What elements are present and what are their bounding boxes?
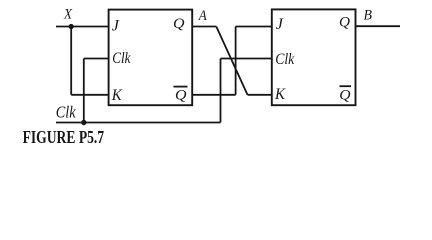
svg-text:Q: Q <box>175 87 187 103</box>
wire Q1 output node A <box>192 26 216 28</box>
wire X branch to K1 <box>71 94 108 96</box>
wire Clk to Clk2 vertical <box>220 59 222 123</box>
svg-text:J: J <box>112 18 120 35</box>
wire X branch vertical <box>70 27 72 95</box>
overline of Q-bar U2 <box>340 85 352 87</box>
wire X input to J1 <box>56 26 109 28</box>
junction dot on X wire <box>69 24 74 29</box>
flip-flop U1 box <box>109 10 193 106</box>
svg-text:Q: Q <box>173 16 185 32</box>
svg-text:K: K <box>274 86 286 103</box>
svg-text:A: A <box>198 8 208 24</box>
junction dot on Clk line <box>81 120 86 125</box>
wire Q1-bar output <box>192 94 235 96</box>
wire Q2 output node B <box>356 25 401 27</box>
wire A to K2 horizontal <box>248 94 272 96</box>
svg-text:Clk: Clk <box>112 50 131 67</box>
overline of Q-bar U1 <box>174 86 188 88</box>
svg-text:K: K <box>111 87 123 104</box>
svg-text:Clk: Clk <box>275 51 295 68</box>
wire Clk to Clk1 vertical <box>83 59 85 123</box>
svg-text:X: X <box>63 7 73 23</box>
svg-text:Clk: Clk <box>56 102 76 121</box>
wire Q1-bar vertical to J2 <box>235 27 237 95</box>
wire Clk to Clk2 horizontal <box>221 58 272 60</box>
wire A diagonal to K2 <box>216 27 247 95</box>
wire Clk input line <box>56 122 221 124</box>
wire Clk to Clk1 horizontal <box>84 58 109 60</box>
flip-flop U2 box <box>272 9 356 105</box>
svg-text:B: B <box>364 7 373 23</box>
wire to J2 horizontal <box>236 26 272 28</box>
svg-text:Q: Q <box>339 87 350 103</box>
svg-text:J: J <box>276 16 284 33</box>
svg-text:Q: Q <box>339 15 350 31</box>
svg-text:FIGURE P5.7: FIGURE P5.7 <box>23 127 105 147</box>
